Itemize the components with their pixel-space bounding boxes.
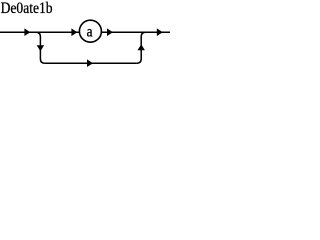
arrow A2 right (top rail, before circle) (71, 28, 77, 36)
left branch wire (down from top rail to bottom rail) (36, 32, 45, 63)
bottom bypass rail wire (45, 62, 137, 64)
terminal circle "a" (79, 20, 101, 42)
arrow A7 up (right branch vertical) (138, 44, 145, 50)
arrow A1 right (top rail, before branch) (24, 28, 30, 36)
arrow A6 down (left branch vertical) (37, 45, 44, 51)
letter a inside circle (87, 23, 93, 40)
top rail wire (left segment) (0, 31, 80, 33)
arrow A5 right (bottom rail) (87, 59, 93, 67)
svg-text:a: a (87, 23, 93, 40)
svg-text:De0ate1b: De0ate1b (1, 0, 53, 17)
right branch wire (up from bottom rail to top rail) (137, 32, 146, 63)
top rail wire (right segment) (101, 31, 170, 33)
arrow A4 right (top rail, after merge) (157, 28, 163, 36)
arrow A3 right (top rail, after circle) (107, 28, 113, 36)
background (0, 0, 170, 71)
